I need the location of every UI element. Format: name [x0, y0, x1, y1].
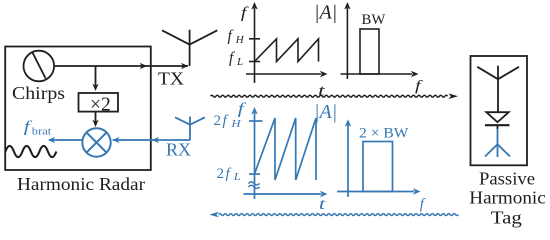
svg-text:H: H: [230, 119, 242, 130]
svg-text:f: f: [420, 196, 426, 212]
TX chirp graph axes: [246, 8, 321, 83]
svg-text:Tag: Tag: [491, 208, 522, 228]
arrowhead wire into TX antenna: [181, 63, 188, 69]
svg-text:H: H: [235, 34, 245, 46]
svg-text:TX: TX: [158, 69, 184, 89]
svg-text:f: f: [229, 50, 236, 67]
passive tag box: [471, 56, 528, 165]
svg-text:Passive: Passive: [479, 169, 535, 189]
frequency doubler box: [79, 93, 119, 112]
received wave squiggle arrow (blue, leftward): [219, 214, 459, 216]
svg-text:f: f: [238, 101, 248, 118]
chirp generator circle: [24, 51, 55, 82]
RX antenna: [50, 117, 206, 141]
RX sawtooth chirps: [255, 118, 317, 180]
svg-text:2: 2: [214, 113, 222, 129]
diode triangle: [486, 112, 508, 122]
2f_L tick: [249, 173, 260, 175]
arrowhead mixer output: [48, 137, 55, 143]
TX antenna: [162, 30, 217, 66]
svg-text:L: L: [236, 56, 243, 68]
svg-text:f: f: [415, 79, 423, 95]
transmitted wave squiggle arrow: [211, 95, 448, 97]
wire mixer output: [50, 139, 83, 141]
svg-text:f: f: [241, 5, 250, 22]
chirp generator slash: [32, 52, 45, 78]
tag re-radiating antenna (blue): [485, 129, 510, 157]
svg-text:Harmonic Radar: Harmonic Radar: [17, 174, 145, 194]
tag receive antenna: [497, 66, 499, 113]
svg-text:t: t: [319, 196, 326, 213]
svg-text:brat: brat: [32, 126, 52, 138]
arrowhead wire at radar box edge: [140, 63, 147, 69]
wire doubler to mixer: [95, 112, 97, 125]
svg-text:|A|: |A|: [314, 2, 337, 24]
svg-text:f: f: [223, 113, 229, 129]
arrowhead RX into mixer: [112, 137, 119, 143]
svg-text:RX: RX: [166, 140, 191, 160]
f_H tick: [249, 38, 260, 40]
axis break marks: [249, 182, 260, 185]
arrowhead into doubler: [92, 84, 98, 91]
2f_H tick: [249, 120, 263, 122]
2xBW rectangle: [363, 142, 393, 192]
diode stub: [497, 125, 499, 129]
svg-text:L: L: [233, 172, 241, 183]
svg-text:2 × BW: 2 × BW: [359, 126, 409, 142]
svg-text:f: f: [226, 166, 232, 182]
diode bar: [485, 124, 510, 126]
f_L tick: [249, 61, 260, 63]
arrowhead into mixer: [92, 120, 98, 127]
wire RX antenna to mixer: [113, 139, 191, 141]
IF beat waveform squiggle: [5, 146, 56, 157]
RX chirp graph axes: [244, 113, 322, 199]
wire chirps to TX antenna: [54, 65, 188, 67]
BW rectangle: [360, 29, 379, 74]
harmonic radar box: [5, 47, 151, 171]
wire branch down to doubler: [95, 66, 97, 89]
svg-text:Chirps: Chirps: [12, 83, 65, 103]
svg-text:Harmonic: Harmonic: [469, 188, 546, 208]
svg-text:×2: ×2: [90, 94, 111, 115]
TX sawtooth chirps: [255, 39, 319, 62]
svg-text:2: 2: [217, 166, 225, 182]
svg-text:|A|: |A|: [314, 101, 337, 123]
arrowhead RX into radar box: [152, 137, 159, 143]
svg-text:BW: BW: [362, 12, 386, 28]
svg-text:f: f: [228, 28, 235, 45]
mixer: [82, 128, 110, 156]
TX spectrum axes: [346, 8, 348, 79]
